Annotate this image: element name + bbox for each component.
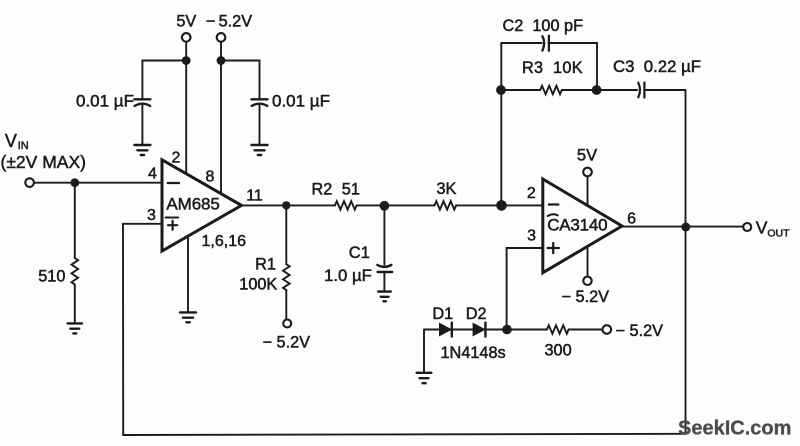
svg-text:0.01 µF: 0.01 µF bbox=[272, 92, 330, 111]
wire CA3140 output to VOUT bbox=[622, 226, 743, 228]
svg-text:R3 10K: R3 10K bbox=[522, 59, 583, 77]
svg-text:1N4148s: 1N4148s bbox=[441, 344, 506, 362]
svg-text:V: V bbox=[756, 218, 768, 238]
op-amp U2 CA3140 bbox=[543, 179, 622, 273]
capacitor 0.01uF right (bypass) bbox=[221, 61, 330, 144]
node VIN label bbox=[1, 131, 86, 172]
svg-text:C2 100 pF: C2 100 pF bbox=[503, 17, 584, 35]
wire D2 to 300 bbox=[485, 329, 547, 331]
svg-text:− 5.2V: − 5.2V bbox=[206, 13, 252, 31]
svg-text:CA3140: CA3140 bbox=[547, 215, 607, 234]
wire C2 top rail left bbox=[501, 42, 541, 44]
svg-text:C3 0.22 µF: C3 0.22 µF bbox=[613, 57, 701, 76]
wire R2 to 3K bbox=[357, 204, 435, 206]
svg-text:C1: C1 bbox=[349, 244, 370, 262]
svg-text:R1: R1 bbox=[255, 255, 276, 273]
terminal diode branch -5.2V bbox=[603, 325, 612, 334]
wire 5V down to AM685 pin 2 bbox=[185, 42, 187, 177]
junction dot on 5V line bbox=[182, 56, 191, 65]
U1 minus input bbox=[168, 182, 179, 184]
svg-text:6: 6 bbox=[627, 211, 636, 228]
svg-text:5V: 5V bbox=[577, 147, 597, 165]
terminal VOUT bbox=[743, 223, 751, 231]
svg-text:SeekIC.com: SeekIC.com bbox=[678, 418, 791, 440]
resistor 300 bbox=[545, 325, 603, 359]
junction dot C1 node bbox=[380, 201, 390, 211]
wire 3K to CA3140 pin 2 bbox=[456, 204, 543, 206]
terminal 5V bbox=[182, 33, 191, 42]
terminal VIN input bbox=[25, 178, 34, 187]
junction dot R3 left bbox=[496, 85, 506, 95]
junction dot input node bbox=[70, 178, 79, 187]
svg-text:3: 3 bbox=[147, 207, 156, 224]
terminal CA3140 5V bbox=[583, 168, 592, 177]
svg-text:5V: 5V bbox=[176, 13, 196, 31]
svg-text:− 5.2V: − 5.2V bbox=[562, 288, 610, 306]
diode D1 bbox=[432, 305, 453, 337]
ground (left bypass cap) bbox=[134, 145, 150, 155]
op-amp U1 AM685 bbox=[162, 160, 242, 251]
wire AM685 output bbox=[242, 204, 336, 206]
svg-text:D1: D1 bbox=[432, 305, 453, 323]
svg-text:51: 51 bbox=[342, 181, 360, 199]
svg-text:1,6,16: 1,6,16 bbox=[202, 233, 247, 250]
svg-text:(±2V MAX): (±2V MAX) bbox=[1, 152, 86, 172]
U1 overline above plus bbox=[166, 216, 179, 218]
capacitor C3 0.22uF bbox=[597, 57, 701, 98]
resistor R3 10K bbox=[501, 59, 596, 94]
U2 overline above C bbox=[548, 214, 558, 216]
svg-text:D2: D2 bbox=[466, 305, 487, 323]
wire CA3140 -5.2V stub bbox=[587, 242, 589, 276]
svg-text:3K: 3K bbox=[437, 180, 457, 198]
terminal R1 -5.2V bbox=[283, 319, 291, 327]
ground (right bypass cap) bbox=[252, 145, 268, 155]
svg-text:OUT: OUT bbox=[767, 227, 790, 239]
capacitor C2 100 pF bbox=[503, 17, 584, 51]
resistor R2 51 bbox=[312, 181, 360, 210]
svg-text:V: V bbox=[5, 131, 17, 151]
capacitor 0.01uF left (bypass) bbox=[76, 61, 186, 144]
svg-text:11: 11 bbox=[246, 188, 263, 205]
U2 plus input bbox=[548, 243, 559, 253]
wire AM685 ground stub bbox=[187, 234, 189, 311]
svg-text:300: 300 bbox=[545, 341, 572, 359]
resistor R1 100K bbox=[239, 205, 289, 319]
svg-text:8: 8 bbox=[205, 169, 214, 186]
junction dot feedback node (3K / CA3140 pin2) bbox=[496, 200, 507, 211]
wire C2 top rail right and down bbox=[549, 43, 597, 90]
terminal CA3140 -5.2V bbox=[583, 277, 591, 285]
diode D2 bbox=[466, 305, 487, 337]
svg-text:AM685: AM685 bbox=[166, 194, 219, 213]
ground (AM685) bbox=[180, 312, 196, 322]
junction dot output node bbox=[681, 223, 690, 232]
svg-text:2: 2 bbox=[172, 150, 181, 167]
wire input to AM685 pin 4 bbox=[35, 182, 162, 184]
svg-text:1.0 µF: 1.0 µF bbox=[324, 266, 372, 285]
svg-text:100K: 100K bbox=[239, 276, 277, 294]
wire D1 to D2 bbox=[452, 329, 473, 331]
wire -5.2V down to AM685 pin 8 bbox=[220, 42, 222, 196]
junction dot R3 right bbox=[592, 85, 602, 95]
capacitor C1 1.0uF bbox=[324, 206, 392, 291]
wire feedback vertical up to R3/C2 bbox=[500, 43, 502, 205]
svg-text:− 5.2V: − 5.2V bbox=[616, 322, 664, 340]
U2 minus input bbox=[549, 203, 559, 205]
wire diode branch left + ground stub bbox=[424, 330, 440, 372]
junction dot R1 node bbox=[282, 201, 290, 209]
resistor 3K bbox=[435, 180, 457, 210]
ground (diodes) bbox=[417, 373, 432, 383]
svg-text:4: 4 bbox=[148, 166, 157, 183]
svg-text:3: 3 bbox=[527, 227, 536, 244]
wire CA3140 5V stub bbox=[587, 177, 589, 211]
ground (510) bbox=[68, 323, 82, 333]
ground (C1) bbox=[378, 292, 391, 302]
svg-text:2: 2 bbox=[527, 185, 536, 202]
junction dot on -5.2V line bbox=[217, 56, 226, 65]
wire AM685 pin 3 feedback to bottom rail bbox=[123, 224, 686, 435]
svg-text:IN: IN bbox=[18, 140, 29, 152]
svg-text:510: 510 bbox=[38, 268, 65, 286]
U1 plus input bbox=[168, 221, 177, 230]
svg-text:− 5.2V: − 5.2V bbox=[263, 333, 311, 351]
wire output right vertical bbox=[685, 90, 687, 434]
svg-text:0.01 µF: 0.01 µF bbox=[76, 92, 134, 111]
junction dot diode node bbox=[502, 325, 512, 335]
terminal -5.2V bbox=[217, 33, 226, 42]
wire CA3140 pin3 to diode node bbox=[507, 248, 543, 330]
resistor 510 bbox=[38, 183, 78, 323]
svg-text:R2: R2 bbox=[312, 181, 333, 199]
